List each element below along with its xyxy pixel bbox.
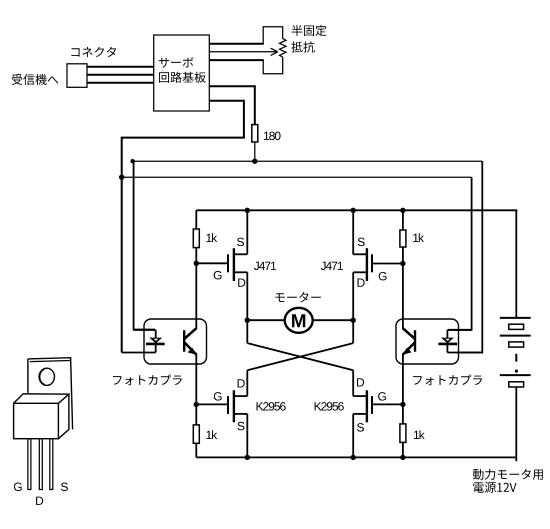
junction: gate node Q1 [194,261,199,266]
label: S pin [61,483,68,492]
connector CN1 [67,64,87,88]
transistor Q2 gate bar [371,254,373,272]
wire: motor left down [246,320,248,343]
wire: R2 to gate node Q1 [195,248,197,264]
phototransistor of PC2 emitter [403,343,415,355]
transistor Q4 channel bar [366,390,368,422]
label: G pin [14,483,22,492]
transistor Q1 channel bar [233,248,235,281]
junction: top rail right S riser [351,208,356,213]
resistor R1 180 ohm [252,125,258,142]
battery BT1 cell 2 negative [509,342,524,347]
junction: bottom rail right S riser [351,455,356,460]
label: motor (mota) [275,292,320,302]
wire: gate Q2 [372,263,403,265]
label: 1k bottom-right [414,430,425,439]
wire: Q3 source stub [234,413,247,415]
phototransistor of PC1 emitter [185,343,197,355]
label: D of Q2 [358,279,365,287]
wire: Q4 drain stub [353,395,367,397]
LED1 of PC1 cathode wire [122,352,156,354]
junction: gate node Q4 [400,402,405,407]
wire: Q4 source riser to bottom rail [352,414,354,458]
wire: motor right down [352,320,354,343]
label: J471 of Q2 [321,262,343,270]
phototransistor of PC2 base bar [414,330,416,352]
wire: gate node Q3 to R4 [195,404,197,425]
wire: pot bottom bracket [263,59,283,74]
wire: gate node Q1 to photocoupler collector [195,263,197,319]
junction: gate node Q3 [194,402,199,407]
wire: gate Q1 [196,262,228,264]
label: S of Q1 [237,238,244,247]
junction: top rail left S riser [245,208,250,213]
label: 180 [264,132,281,141]
label: photocoupler right [413,375,482,386]
wire: R4 to bottom rail [195,443,197,457]
wire: connector to servo pin1 [87,66,154,68]
label: S of Q4 [357,423,364,432]
transistor Q4 gate bar [371,396,373,414]
emitter arrow of PC2 [403,348,412,355]
wire: Q2 source riser [352,210,354,254]
label: G of Q1 [214,271,222,280]
LED2 of PC2 triangle [441,338,454,344]
label: 12V supply [473,482,516,493]
wire: Q2 drain stub [353,271,367,273]
transistor Q1 gate bar [227,254,229,272]
battery BT1 plate 2 positive [500,335,531,337]
wire: PC2 collector entry [402,319,404,329]
battery BT1 cell 3 negative [509,382,524,387]
battery BT1 cell 1 negative [509,324,524,329]
wire: PC1 collector entry [195,319,197,329]
node GND bottom rail [196,456,516,458]
wire: net2 left drop to LED1 cathode [121,177,123,352]
wire: Q1 drain stub [234,271,247,273]
wire: servo to pot bottom [209,59,263,61]
label: G of Q3 [214,392,222,401]
wire: connector to servo pin2 [87,74,154,76]
wire: battery negative to bottom rail [515,387,517,461]
resistor R5 1k (bottom right) [400,424,406,443]
LED2 of PC2 anode lead [446,330,448,338]
junction: R1 on net1 [252,159,257,164]
wire: Q2 drain to motor right [352,272,354,320]
node V+ top rail [196,209,517,211]
wire: Q3 drain stub [234,395,247,397]
wire: PC1 emitter exit [195,354,197,364]
junction: motor right node [351,318,356,323]
wire: Q2 source stub [353,253,367,255]
LED2 of PC2 anode wire [447,329,471,331]
wire: top rail to battery positive [515,210,517,318]
label: K2956 of Q4 [315,402,344,411]
wire: resistor 180 to net1 [254,142,256,161]
LED1 of PC1 anode lead [155,330,157,338]
label: to receiver (jusinki-he) [12,74,59,85]
label: K2956 of Q3 [257,402,286,411]
wire: net2 right drop to LED2 anode [448,177,472,330]
junction: bottom rail right 1k [400,455,405,460]
LED1 of PC1 cathode lead [155,344,157,353]
wire: gate Q4 [372,403,403,405]
battery continuation dash [515,354,517,362]
wire: net1 drop to LED1 anode [134,161,155,329]
wire: servo to pot wiper (arrow shaft) [209,51,276,53]
TO-220 body front face [14,403,59,438]
emitter arrow of PC1 [188,348,197,355]
wire: servo out B path [122,101,244,177]
label: D pin [36,497,43,505]
servo circuit board U1 [154,35,210,111]
wire: connector to servo pin3 [87,82,154,84]
label: S of Q3 [238,422,245,431]
label: D of Q3 [238,379,245,387]
LED2 of PC2 cathode bar [438,343,457,346]
label: 1k top-right [413,233,424,242]
junction: top rail right 1k [400,208,405,213]
label: 1k bottom-left [206,430,217,439]
LED1 of PC1 cathode bar [146,343,165,346]
wire: Q1 source riser [246,210,248,254]
wire: motor left lead [247,319,285,321]
wire: photocoupler emitter to gate node Q3 [195,364,197,405]
wire: photocoupler2 emitter to gate node Q4 [402,364,404,405]
label: 1k top-left [206,233,217,242]
transistor Q3 gate bar [227,396,229,414]
photocoupler PC1 body [144,319,207,364]
junction: motor left node [245,318,250,323]
battery BT1 plate 1 positive [500,317,531,319]
label: G of Q2 [379,272,387,281]
TO-220 leg 1 (G) [28,439,31,490]
resistor R2 1k (top left) [193,229,199,248]
node net2 rail [122,176,472,178]
wire: cross diagonal right-to-left [247,343,353,370]
wire: Q4 source stub [353,413,367,415]
TO-220 mounting hole [39,368,54,385]
wire: R3 to gate node Q2 [402,247,404,264]
label: semi-fixed (hankotei) [292,25,327,36]
TO-220 body right face [58,394,69,439]
photocoupler PC2 body [396,319,459,364]
motor M1 circle [285,308,313,333]
TO-220 tab inner edge [30,361,71,362]
wire: Q1 source stub [234,253,247,255]
label: connector (konekuta) [71,47,116,57]
junction: bottom rail left S riser [245,455,250,460]
TO-220 hole inner arc [40,369,45,385]
wire: top rail to R3 [402,210,404,230]
transistor Q3 channel bar [233,390,235,422]
LED1 of PC1 anode wire [134,329,156,331]
wire: motor right lead [313,319,354,321]
resistor R3 1k (top right) [400,230,406,247]
wire: gate node Q2 to photocoupler2 collector [402,264,404,320]
label: S of Q2 [358,238,365,247]
label: power motor supply [473,469,543,480]
resistor R4 1k (bottom left) [193,425,199,443]
battery continuation dot [515,370,518,373]
TO-220 package tab outline [28,358,73,430]
LED1 of PC1 triangle [149,338,162,344]
wire: R5 to bottom rail [402,442,404,457]
label: M inside motor [292,314,305,327]
wire: Q3 source riser to bottom rail [246,414,248,458]
label: D of Q4 [357,378,364,386]
wire: net1 right drop to LED2 cathode [457,161,482,352]
label: photocoupler left [113,375,182,386]
wire: Q3 drain riser [246,370,248,396]
node net1 rail [133,160,483,162]
phototransistor of PC2 collector [403,328,415,338]
arrowhead of wiper [271,48,278,55]
battery BT1 plate 3 positive [500,374,531,376]
phototransistor of PC1 collector [185,328,197,338]
label: resistor (teiko) [291,41,314,52]
TO-220 leg 2 (D) [39,439,42,490]
wire: Q1 drain to motor left [246,272,248,320]
junction: net1 left end [130,159,134,163]
label: J471 of Q1 [254,262,276,270]
wire: PC2 emitter exit [402,354,404,364]
wire: Q4 drain riser [352,370,354,396]
label: circuit board (kairo kiban) [159,72,206,83]
LED2 of PC2 cathode wire [447,352,482,354]
wire: pot top bracket [263,27,283,45]
LED2 of PC2 cathode lead [446,344,448,353]
transistor Q2 channel bar [366,248,368,281]
wire: gate Q3 [196,403,228,405]
wire: cross diagonal left-to-right [247,343,353,370]
TO-220 body top face [14,394,69,404]
label: D of Q1 [238,279,245,287]
wire: gate node Q4 to R5 [402,404,404,424]
resistor VR1 zigzag (semi-fixed) [280,39,287,59]
wire: top rail to R2 [195,210,197,229]
wire: servo out A to resistor 180 [209,86,255,124]
label: servo (sabo) [159,57,194,67]
phototransistor of PC1 base bar [183,330,185,352]
junction: gate node Q2 [400,261,405,266]
TO-220 leg 3 (S) [50,439,53,490]
junction: net2 left [119,175,124,180]
wire: servo to pot top [209,43,263,45]
label: G of Q4 [378,392,386,401]
